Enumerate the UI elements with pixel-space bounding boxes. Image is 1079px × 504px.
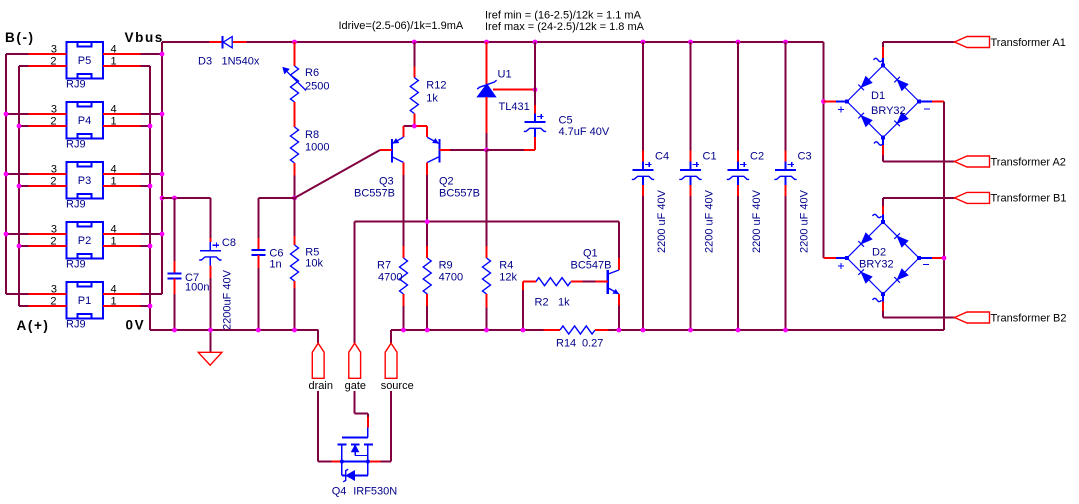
- connector P1 (RJ9): [50, 282, 116, 331]
- wire C6 to 0V bus: [257, 268, 259, 330]
- node C7 tap junction: [172, 196, 177, 201]
- svg-text:0V: 0V: [126, 318, 146, 333]
- connector P5 (RJ9): [50, 42, 116, 91]
- svg-text:RJ9: RJ9: [66, 79, 86, 91]
- label Q1 value BC547B: [571, 260, 612, 272]
- wire Q2 base to ref node: [450, 149, 487, 151]
- wire D2 top corner: [882, 198, 884, 206]
- label D1 plus: [838, 106, 844, 112]
- label C6 value 1n: [269, 259, 281, 271]
- svg-text:P1: P1: [78, 295, 91, 307]
- wire R8 bottom lead: [294, 163, 296, 176]
- wire P1 pin1 to 0V bus: [141, 305, 150, 307]
- wire P3 pin4 to Vbus bus: [141, 173, 162, 175]
- label D1 tilde top: [874, 58, 883, 61]
- svg-text:1k: 1k: [426, 93, 438, 105]
- svg-text:A(+): A(+): [17, 318, 50, 333]
- label R6: [305, 67, 319, 79]
- wire C5 top lead: [534, 105, 536, 114]
- node R4/0V junction: [484, 328, 489, 333]
- svg-text:RJ9: RJ9: [66, 259, 86, 271]
- label C1: [703, 151, 717, 163]
- node Vbus tap junction: [160, 196, 165, 201]
- label D2 value BRY32: [859, 259, 894, 271]
- svg-text:Q3: Q3: [379, 176, 394, 188]
- wire C1 bottom lead: [690, 185, 692, 196]
- wire R7 bottom lead: [403, 294, 405, 306]
- node Vbus/R6 junction: [292, 40, 297, 45]
- label D3 value 1N540x: [222, 56, 260, 68]
- node Vbus/C3 junction: [783, 40, 788, 45]
- label source: [381, 380, 414, 392]
- label Q3 value BC557B: [354, 188, 395, 200]
- wire P3 pin4 lead: [103, 173, 141, 175]
- svg-text:1n: 1n: [269, 259, 281, 271]
- resistor R8: [291, 127, 299, 163]
- label R8: [305, 129, 319, 141]
- wire source lead red: [368, 461, 380, 463]
- resistor R12: [410, 78, 418, 114]
- wire P4 pin3 to B- bus: [6, 113, 29, 115]
- wire P2 pin3 lead: [29, 233, 67, 235]
- wire C1 top lead: [690, 151, 692, 162]
- wire C6 top drop: [257, 198, 259, 238]
- svg-text:1000: 1000: [305, 142, 329, 154]
- label R2: [535, 297, 549, 309]
- node A+ P2 junction: [17, 244, 22, 249]
- label R5: [305, 247, 319, 259]
- wire C3 bottom lead: [785, 185, 787, 196]
- svg-text:BRY32: BRY32: [871, 105, 906, 117]
- net label 0V: [126, 318, 146, 333]
- wire Q2 emitter lead: [426, 126, 428, 137]
- node R2/0V junction: [521, 328, 526, 333]
- wire R7 top lead: [403, 246, 405, 258]
- wire C7 top drop: [174, 198, 176, 261]
- wire 0V bus left segment: [150, 329, 319, 331]
- transistor Q2: [427, 137, 439, 162]
- wire C4 top lead: [642, 151, 644, 162]
- wire P2 pin1 lead: [103, 245, 141, 247]
- wire P3 pin3 lead: [29, 173, 67, 175]
- label D1 minus: [924, 108, 930, 110]
- wire C1 top drop: [690, 42, 692, 151]
- wire R6-R8 lead: [294, 102, 296, 127]
- svg-text:1k: 1k: [558, 297, 570, 309]
- wire R4 top lead: [486, 246, 488, 258]
- port Transformer A1: [955, 37, 990, 48]
- resistor R14: [560, 326, 595, 334]
- label R6 value 2500: [305, 81, 329, 93]
- wire U1 anode lead: [486, 97, 488, 133]
- capacitor C4: [632, 162, 654, 186]
- wire P5 pin2 lead: [29, 65, 67, 67]
- wire Vbus tap to C8: [162, 197, 210, 199]
- wire C8 bottom lead: [209, 266, 211, 278]
- label drain: [309, 380, 333, 392]
- port gate: [349, 343, 361, 378]
- svg-text:R7: R7: [377, 260, 391, 272]
- wire P3 pin1 to 0V bus: [141, 185, 150, 187]
- label Transformer B2: [991, 312, 1067, 324]
- wire C3 top drop: [785, 42, 787, 151]
- label D3: [198, 56, 212, 68]
- wire P5 pin1 lead: [103, 65, 141, 67]
- label C2 value rotated: [751, 189, 763, 253]
- label gate: [345, 380, 366, 392]
- wire gate net drop to port: [354, 222, 356, 344]
- wire R4 bottom lead: [486, 294, 488, 308]
- node Q2 collector / gate junction: [425, 219, 430, 224]
- resistor R2: [536, 278, 571, 286]
- svg-text:100n: 100n: [185, 282, 209, 294]
- svg-text:TL431: TL431: [499, 101, 530, 113]
- wire P5 pin3 to B- bus: [6, 53, 29, 55]
- wire P4 pin2 to A+ bus: [19, 125, 29, 127]
- wire Q2 base lead: [440, 149, 451, 151]
- label Q2: [439, 176, 454, 188]
- wire R5 to 0V bus: [294, 288, 296, 330]
- wire R2 to 0V bus: [522, 290, 524, 330]
- wire P2 pin2 lead: [29, 245, 67, 247]
- svg-text:D3: D3: [198, 56, 212, 68]
- wire Q3 emitter lead: [403, 126, 405, 137]
- svg-text:RJ9: RJ9: [66, 139, 86, 151]
- node B- P2 junction: [4, 232, 9, 237]
- label C2: [750, 151, 764, 163]
- wire D1 bottom corner: [882, 155, 884, 162]
- wire D1 ac top lead: [882, 47, 884, 58]
- wire P1 pin2 lead: [29, 305, 67, 307]
- svg-text:RJ9: RJ9: [66, 319, 86, 331]
- wire R9 top lead: [426, 246, 428, 258]
- wire P1 pin3 to B- bus: [6, 293, 29, 295]
- svg-text:R2: R2: [535, 297, 549, 309]
- capacitor C3: [774, 162, 796, 186]
- svg-text:Idrive=(2.5-06)/1k=1.9mA: Idrive=(2.5-06)/1k=1.9mA: [339, 20, 464, 32]
- svg-text:Transformer A2: Transformer A2: [991, 156, 1066, 168]
- svg-text:1N540x: 1N540x: [222, 56, 260, 68]
- svg-text:10k: 10k: [305, 258, 323, 270]
- wire C5 to ref node: [487, 149, 525, 151]
- wire P5 pin3 lead: [29, 53, 67, 55]
- svg-text:P5: P5: [78, 55, 91, 67]
- port source: [385, 343, 397, 378]
- wire P4 pin3 lead: [29, 113, 67, 115]
- label Q4 value IRF530N: [353, 486, 397, 498]
- svg-text:drain: drain: [309, 380, 333, 392]
- svg-text:R6: R6: [305, 67, 319, 79]
- capacitor C1: [679, 162, 701, 186]
- node Vbus pin4 junction y=114: [160, 112, 165, 117]
- label C8: [222, 237, 236, 249]
- svg-text:R12: R12: [426, 80, 446, 92]
- wire R4 to 0V bus: [486, 308, 488, 331]
- svg-text:Q2: Q2: [439, 176, 454, 188]
- node Vbus/C2 junction: [736, 40, 741, 45]
- wire C4 bottom lead: [642, 185, 644, 196]
- wire drain drop: [317, 330, 319, 343]
- wire 0V vertical (pins 1): [149, 66, 151, 330]
- svg-text:C1: C1: [703, 151, 717, 163]
- wire C8 top drop: [209, 198, 211, 238]
- wire Vbus right drop to bridges: [823, 42, 825, 258]
- svg-text:2200 uF 40V: 2200 uF 40V: [798, 189, 810, 253]
- wire gate to Q4: [355, 391, 368, 417]
- wire P5 pin4 lead: [103, 53, 141, 55]
- wire P4 pin4 to Vbus bus: [141, 113, 162, 115]
- wire P3 pin2 to A+ bus: [19, 185, 29, 187]
- svg-text:Iref min = (16-2.5)/12k = 1.1: Iref min = (16-2.5)/12k = 1.1 mA: [485, 9, 642, 21]
- svg-text:4.7uF 40V: 4.7uF 40V: [559, 126, 610, 138]
- label R4: [499, 260, 513, 272]
- net label B(-): [5, 30, 35, 45]
- port Transformer B1: [955, 192, 990, 203]
- wire C3 top lead: [785, 151, 787, 162]
- label R2 value 1k: [558, 297, 570, 309]
- svg-text:Q4: Q4: [332, 486, 347, 498]
- wire C1 to 0V bus: [690, 196, 692, 330]
- wire C5 top drop: [534, 42, 536, 105]
- wire C2 to 0V bus: [737, 196, 739, 330]
- node C4/0V junction: [641, 328, 646, 333]
- wire P4 pin4 lead: [103, 113, 141, 115]
- wire R14 right lead: [595, 329, 609, 331]
- wire R12 top: [413, 42, 415, 66]
- wire P1 pin4 lead: [103, 293, 141, 295]
- net B(-) vertical bus: [5, 54, 7, 294]
- wire P4 pin1 to 0V bus: [141, 125, 150, 127]
- node A+ P3 junction: [17, 184, 22, 189]
- node R7/0V junction: [401, 328, 406, 333]
- label R14 value 0.27: [582, 338, 603, 350]
- node Vbus/U1 junction: [484, 40, 489, 45]
- label C5: [559, 115, 573, 127]
- wire R8 to node: [294, 176, 296, 198]
- svg-text:0.27: 0.27: [582, 338, 603, 350]
- node 0V pin1 junction y=306: [148, 304, 153, 309]
- label R5 value 10k: [305, 258, 323, 270]
- wire P3 pin3 to B- bus: [6, 173, 29, 175]
- label Q1: [583, 248, 598, 260]
- svg-text:C3: C3: [798, 151, 812, 163]
- annotation Iref max: [485, 21, 645, 33]
- label C8 value rotated: [222, 269, 234, 330]
- label R4 value 12k: [499, 271, 517, 283]
- wire Q3 collector lead: [403, 163, 405, 176]
- svg-text:Q1: Q1: [583, 248, 598, 260]
- svg-text:P2: P2: [78, 235, 91, 247]
- wire node to R5: [294, 198, 296, 236]
- wire P2 pin1 to 0V bus: [141, 245, 150, 247]
- port Transformer B2: [955, 312, 990, 323]
- label C7: [185, 272, 199, 284]
- node B- P4 junction: [4, 112, 9, 117]
- svg-text:RJ9: RJ9: [66, 199, 86, 211]
- svg-text:U1: U1: [498, 69, 512, 81]
- wire 0V bus right segment b: [609, 329, 944, 331]
- wire C5 bottom lead: [534, 137, 536, 150]
- label Transformer A2: [991, 156, 1066, 168]
- node B- P3 junction: [4, 172, 9, 177]
- node 0V pin1 junction y=126: [148, 124, 153, 129]
- node U1 ref / C5 junction: [533, 87, 538, 92]
- node Vbus/C4 junction: [641, 40, 646, 45]
- wire P4 pin1 lead: [103, 125, 141, 127]
- wire U1 ref lead: [493, 89, 535, 91]
- wire U1 cathode lead: [486, 42, 488, 84]
- wire C2 top drop: [737, 42, 739, 151]
- wire P1 pin3 lead: [29, 293, 67, 295]
- label Q2 value BC557B: [439, 188, 480, 200]
- wire transformer B1 link: [883, 197, 955, 199]
- svg-text:B(-): B(-): [5, 30, 35, 45]
- capacitor C8: [199, 242, 221, 266]
- port Transformer A2: [955, 156, 990, 167]
- svg-text:IRF530N: IRF530N: [353, 486, 397, 498]
- wire P2 pin2 to A+ bus: [19, 245, 29, 247]
- wire C7 top lead: [174, 261, 176, 274]
- svg-text:C4: C4: [655, 151, 669, 163]
- wire Q1 collector lead: [618, 258, 620, 270]
- wire Q3 base lead: [380, 149, 392, 151]
- wire R14 left lead: [544, 329, 561, 331]
- svg-text:Transformer A1: Transformer A1: [991, 37, 1066, 49]
- wire drain lead red: [332, 461, 342, 463]
- wire P2 pin4 lead: [103, 233, 141, 235]
- resistor R9: [423, 258, 431, 294]
- wire C6 bottom lead: [257, 255, 259, 268]
- wire U1 anode to node: [486, 133, 488, 150]
- node Vbus pin4 junction y=54: [160, 52, 165, 57]
- wire D1 minus lead: [932, 101, 944, 103]
- node Q1 emitter/0V junction: [617, 328, 622, 333]
- wire D2 minus lead: [932, 257, 944, 259]
- wire C5 corner lead: [524, 149, 535, 151]
- annotation Iref min: [485, 9, 642, 21]
- node A+ P4 junction: [17, 124, 22, 129]
- label R12 value 1k: [426, 93, 438, 105]
- label D2 minus: [923, 264, 929, 266]
- node R9/0V junction: [425, 328, 430, 333]
- svg-text:BRY32: BRY32: [859, 259, 894, 271]
- wire P4 pin2 lead: [29, 125, 67, 127]
- wire minus rail vertical: [943, 102, 945, 331]
- svg-text:source: source: [381, 380, 414, 392]
- wire D2 ac top lead: [882, 206, 884, 215]
- node 0V pin1 junction y=186: [148, 184, 153, 189]
- node Vbus/C1 junction: [688, 40, 693, 45]
- wire source to Q4: [380, 391, 391, 462]
- svg-text:BC557B: BC557B: [354, 188, 395, 200]
- connector P4 (RJ9): [50, 102, 116, 151]
- bridge rectifier D2: [836, 215, 932, 302]
- wire D1 plus lead: [824, 101, 837, 103]
- wire P2 pin4 to Vbus bus: [141, 233, 162, 235]
- label Transformer A1: [991, 37, 1066, 49]
- wire C4 top drop: [642, 42, 644, 151]
- wire 0V bus right segment a: [391, 329, 543, 331]
- wire C7 bottom lead: [174, 279, 176, 295]
- node Vbus pin4 junction y=234: [160, 232, 165, 237]
- label D1 value BRY32: [871, 105, 906, 117]
- node C8/0V junction: [208, 328, 213, 333]
- wire R5 bottom lead: [294, 281, 296, 288]
- label C1 value rotated: [703, 189, 715, 253]
- net label A(+): [17, 318, 50, 333]
- capacitor C2: [727, 162, 749, 186]
- wire P5 pin4 to Vbus bus: [141, 53, 162, 55]
- wire R5 top lead: [294, 236, 296, 245]
- node 0V pin1 junction y=246: [148, 244, 153, 249]
- wire C2 top lead: [737, 151, 739, 162]
- label R14: [556, 338, 576, 350]
- svg-text:D2: D2: [872, 247, 886, 259]
- wire Q3 collector to R7: [403, 175, 405, 246]
- label D1 tilde bottom: [874, 142, 883, 145]
- label U1: [498, 69, 512, 81]
- wire Vbus rail right of D3: [247, 41, 824, 43]
- wire source drop: [390, 330, 392, 343]
- node R12/emitters junction: [412, 124, 417, 129]
- wire R2 right lead: [571, 281, 583, 283]
- node ref node junction: [484, 148, 489, 153]
- svg-text:P3: P3: [78, 175, 91, 187]
- svg-text:R4: R4: [499, 260, 513, 272]
- label R7: [377, 260, 391, 272]
- wire R9 to 0V bus: [426, 306, 428, 330]
- svg-text:P4: P4: [78, 115, 91, 127]
- wire Vbus rail left of D3: [162, 41, 210, 43]
- svg-text:C8: C8: [222, 237, 236, 249]
- node R5/0V junction: [292, 328, 297, 333]
- wire P5 pin1 to 0V bus: [141, 65, 150, 67]
- node Vbus drop / D1 junction: [821, 99, 826, 104]
- wire P1 pin2 to A+ bus: [19, 305, 29, 307]
- net A(+) vertical bus: [18, 66, 20, 306]
- wire Q1 emitter lead: [618, 294, 620, 306]
- wire C2 bottom lead: [737, 185, 739, 196]
- wire C7 to 0V bus: [174, 294, 176, 330]
- net label Vbus: [125, 30, 164, 45]
- label D2 tilde top: [873, 214, 882, 217]
- wire Q3 base diagonal: [295, 150, 381, 198]
- svg-text:2200 uF 40V: 2200 uF 40V: [751, 189, 763, 253]
- wire D1 ac bottom lead: [882, 145, 884, 155]
- wire R7 to 0V bus: [403, 306, 405, 330]
- node Vbus pin4 junction y=174: [160, 172, 165, 177]
- svg-text:R14: R14: [556, 338, 576, 350]
- wire drain to Q4: [318, 391, 332, 462]
- resistor R6 (pot): [283, 66, 306, 102]
- svg-text:R8: R8: [305, 129, 319, 141]
- label C6: [269, 248, 283, 260]
- svg-text:2500: 2500: [305, 81, 329, 93]
- label R9 value 4700: [439, 271, 463, 283]
- node C6/0V junction: [256, 328, 261, 333]
- label C4: [655, 151, 669, 163]
- label D2: [872, 247, 886, 259]
- shunt regulator U1 TL431: [477, 80, 496, 97]
- capacitor C7: [168, 274, 182, 279]
- svg-text:BC557B: BC557B: [439, 188, 480, 200]
- wire emitter node rail right: [414, 125, 427, 127]
- wire R6 top lead: [294, 42, 296, 66]
- wire R2 left lead down: [522, 282, 524, 290]
- wire D2 bottom corner: [882, 311, 884, 318]
- wire C6 top lead: [257, 238, 259, 250]
- wire Q1 emitter to 0V bus: [618, 306, 620, 331]
